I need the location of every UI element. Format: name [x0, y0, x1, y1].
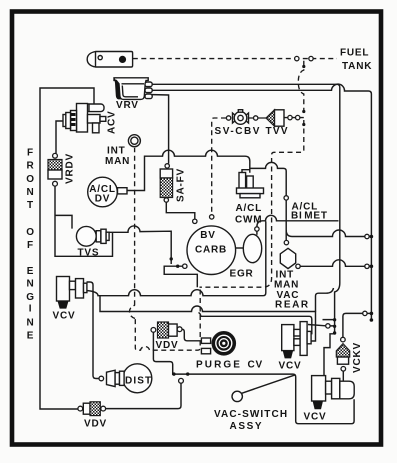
svg-text:I: I	[29, 304, 33, 315]
port circle triangle bottom	[296, 264, 300, 268]
wire BI MET east branch to rail2, hop rail1	[286, 230, 365, 237]
svg-text:VRV: VRV	[116, 100, 139, 111]
svg-text:PURGE: PURGE	[196, 360, 242, 371]
wire SA-FV bottom to carb top port	[166, 202, 195, 219]
filter SA-FV	[160, 169, 172, 198]
wire BI MET down to triangle top	[285, 200, 287, 240]
svg-text:SA-FV: SA-FV	[176, 168, 187, 202]
valve SV-CBV	[233, 110, 249, 125]
wire VRDV down rail x=55 with TVS top branch and bottom loop	[55, 186, 113, 256]
valve VCV lower-right	[312, 376, 355, 410]
svg-text:DV: DV	[95, 194, 111, 205]
svg-text:VCV: VCV	[304, 412, 327, 423]
node dot on TVS drop	[170, 257, 173, 260]
wire ACV top to left rail (x=40) down to bottom VDV	[40, 88, 94, 409]
switch TVS	[76, 226, 109, 246]
motor A/CL CWM	[237, 173, 264, 198]
port circle SA-FV top	[165, 164, 169, 168]
wire branch to TVS top	[55, 215, 72, 228]
svg-text:EGR: EGR	[230, 269, 254, 280]
svg-text:MAN: MAN	[274, 280, 299, 291]
wire carb left port, L-drop to x=197 junction	[164, 266, 197, 287]
port circle carb top-left	[193, 219, 197, 223]
valve VDV bottom	[78, 402, 106, 416]
svg-text:BV: BV	[200, 230, 216, 241]
svg-text:T: T	[27, 200, 34, 211]
wire VRV prong1 long line to right rail1 down to VCV staircase	[148, 84, 340, 375]
port circle SA-FV bottom	[164, 198, 168, 202]
dashed drop from fuel line with bow over lines1-2	[298, 61, 304, 116]
svg-text:DIST: DIST	[125, 376, 152, 387]
svg-text:CARB: CARB	[195, 245, 227, 256]
wire VDV-mid left port down, east, down to long bottom wire	[153, 332, 354, 423]
wire VDV-mid right port to PURGE CV upper tab	[182, 329, 201, 341]
svg-text:VDV: VDV	[84, 419, 107, 430]
port circle DIST left	[99, 376, 104, 381]
svg-text:N: N	[26, 318, 34, 329]
wire rail B from railA branch across to VCV-UR wrap	[100, 296, 316, 341]
svg-text:O: O	[26, 174, 35, 185]
valve VCV upper-left	[57, 277, 87, 309]
svg-text:TVV: TVV	[266, 126, 289, 137]
dashed vertical carb junction down to purge corner then west	[135, 290, 200, 351]
wire rail A from VCV-UL across to EGR drop	[87, 222, 266, 296]
svg-text:O: O	[26, 227, 35, 238]
svg-text:F: F	[27, 148, 34, 159]
port circle EGR top	[255, 227, 259, 231]
svg-text:G: G	[26, 292, 35, 303]
wire CWM corner east to A/CL BI MET drop, hop dashed	[250, 162, 286, 195]
svg-text:BI MET: BI MET	[291, 211, 328, 222]
svg-text:CV: CV	[248, 360, 264, 371]
wire CWM left prong branch	[242, 170, 250, 173]
valve VCV upper-right	[282, 320, 335, 359]
wire VAC-SWITCH pointer line	[241, 375, 295, 394]
port circle triangle top	[284, 240, 288, 244]
node dots on x334.6 drop	[333, 318, 336, 321]
wire short link carb to EGR	[234, 247, 244, 249]
wire SV-CBV to TVV link with node circle	[248, 117, 266, 119]
port circle carb left	[183, 264, 187, 268]
wire TVS right port east, hop dashed, down to carb-left wire	[109, 226, 171, 264]
wire EGR top port rise, hop dashed, east to rail1	[257, 215, 339, 227]
wire VCKV bottom into lower VCV	[342, 371, 344, 381]
fuel vapor canister	[87, 52, 132, 68]
dashed INT MAN vertical up to ring	[134, 148, 136, 305]
wire VRV prong3 to SA-FV vertical	[148, 95, 169, 164]
wire rail C to VCV-UR mid wrap	[199, 313, 312, 334]
wire VDV-bottom right port east then up to port circle	[106, 383, 181, 408]
node circles on fuel dashed line	[295, 56, 299, 60]
wire VRV prong2 long line hop rail1 corner, right rail2	[148, 84, 372, 320]
wire TVV east links with node circles	[284, 117, 304, 119]
dashed bow west around rail B	[130, 305, 136, 318]
svg-text:MAN: MAN	[105, 156, 130, 167]
wire rail B up-branch to rail1 bend	[316, 288, 334, 312]
wire ACV left port to VRDV	[56, 121, 64, 153]
svg-text:ACV: ACV	[107, 110, 118, 134]
valve ACV	[63, 104, 106, 133]
svg-text:VDV: VDV	[156, 340, 179, 351]
svg-text:TANK: TANK	[342, 61, 372, 72]
carburetor BV CARB circle	[187, 226, 236, 275]
svg-text:E: E	[27, 331, 34, 342]
svg-text:F: F	[27, 240, 34, 251]
node circle left of SV-CBV	[226, 116, 230, 120]
svg-text:VCV: VCV	[53, 311, 76, 322]
svg-text:INT: INT	[107, 146, 126, 157]
valve VRV	[114, 78, 152, 100]
svg-text:VRDV: VRDV	[65, 153, 76, 184]
svg-text:FUEL: FUEL	[340, 48, 369, 59]
dashed SV-CBV west then down to carb top	[212, 118, 226, 215]
svg-text:ASSY: ASSY	[230, 421, 264, 432]
svg-text:TVS: TVS	[78, 248, 100, 259]
svg-text:SV-CBV: SV-CBV	[215, 126, 262, 137]
svg-text:E: E	[27, 266, 34, 277]
node dot carb-left	[176, 265, 179, 268]
vac-switch circle	[232, 391, 242, 401]
port circle end of VDV-bottom riser	[179, 378, 184, 383]
svg-text:REAR: REAR	[275, 300, 310, 311]
svg-text:VAC-SWITCH: VAC-SWITCH	[214, 409, 288, 420]
wire VCV-UL right port to DIST via x93	[87, 282, 100, 379]
label FRONT OF ENGINE (vertical letters)	[26, 148, 35, 342]
PURGE CV canister	[201, 332, 235, 356]
svg-text:N: N	[26, 187, 34, 198]
junction dots on fuel-tank dashed vertical	[302, 65, 305, 68]
INT MAN ring port	[128, 135, 140, 147]
svg-text:N: N	[26, 279, 34, 290]
port circle carb top-right (dashed feed)	[210, 215, 214, 219]
svg-text:R: R	[26, 161, 34, 172]
svg-text:VCKV: VCKV	[352, 342, 363, 373]
rail2 junction diamonds	[370, 235, 374, 239]
svg-text:VCV: VCV	[279, 361, 302, 372]
valve VRDV	[48, 153, 62, 186]
check valve VCKV	[336, 337, 349, 371]
svg-text:CWM: CWM	[235, 215, 262, 226]
dashed fuel line canister to FUEL TANK	[133, 58, 337, 60]
distributor DIST	[107, 364, 152, 393]
valve VDV mid	[151, 322, 182, 338]
INT MAN VAC port hexagon	[280, 248, 295, 268]
EGR valve ellipse	[243, 234, 261, 262]
wire A/CL DV right port to y156 rail, hops, down to CWM	[120, 150, 250, 190]
valve TVV	[266, 110, 284, 126]
wire triangle bottom port east to rail2, hop rail1	[300, 260, 365, 267]
wire VCKV top to rail2 tail	[343, 313, 363, 337]
valve A/CL DV circle	[88, 177, 127, 207]
node dots on bottom long wire	[172, 372, 175, 375]
port circle A/CL BI MET	[284, 196, 288, 200]
dashed from TVV junction down to A/CL BI MET corner	[200, 120, 304, 287]
svg-text:A/CL: A/CL	[236, 203, 263, 214]
